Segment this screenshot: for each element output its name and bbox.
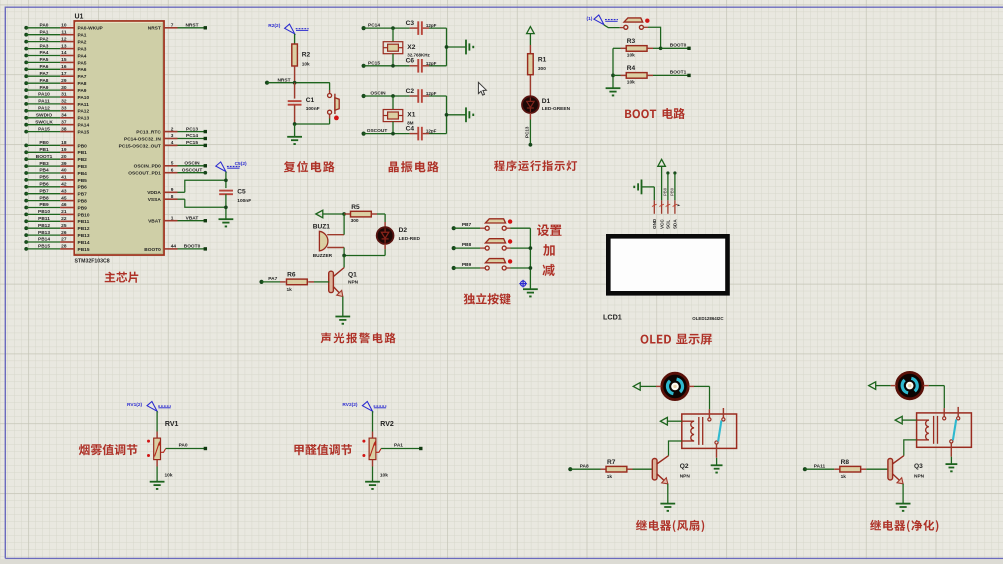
svg-text:BOOT0: BOOT0 — [144, 247, 161, 253]
svg-text:D2: D2 — [399, 227, 408, 234]
svg-text:PB7: PB7 — [39, 188, 49, 194]
U1 left pin 37 PA14 / net SWCLK wire — [24, 119, 89, 128]
svg-text:NPN: NPN — [680, 474, 691, 480]
svg-text:10k: 10k — [302, 62, 310, 68]
label 减 (red) — [543, 264, 555, 276]
wire D2 to junction — [344, 244, 385, 256]
U1 left pin 32 PA11 / net PA11 wire — [24, 99, 89, 108]
svg-text:PB4: PB4 — [39, 168, 49, 174]
net label PB9 (vertical, OLED) — [670, 187, 675, 196]
net label PC15 — [368, 60, 380, 66]
section label 复位电路 (red) — [284, 161, 335, 173]
C2 reference label — [406, 88, 415, 95]
svg-text:PA10: PA10 — [38, 92, 50, 98]
U1 left pin 26 PB13 / net PB13 wire — [24, 230, 90, 239]
svg-text:37: 37 — [61, 119, 67, 125]
power symbol (indicator) — [527, 27, 535, 45]
svg-text:300: 300 — [538, 66, 546, 72]
svg-text:PA8: PA8 — [580, 463, 589, 469]
svg-text:R7: R7 — [607, 459, 616, 466]
svg-text:PB10: PB10 — [38, 209, 50, 215]
svg-text:NPN: NPN — [914, 474, 925, 480]
C1 value label 100nF — [306, 106, 320, 112]
svg-text:VDDA: VDDA — [147, 190, 161, 196]
C4 value label 12pF — [426, 129, 437, 134]
net label PA1 — [394, 443, 403, 449]
svg-text:LED-RED: LED-RED — [399, 236, 421, 242]
power flag RV2(2) (blue) — [342, 402, 386, 412]
wire coil bottom to Q3 collector — [904, 440, 917, 456]
svg-text:PB9: PB9 — [39, 202, 49, 208]
R8 value label 1k — [841, 474, 847, 480]
ground (Q2) — [660, 504, 675, 512]
capacitor C6 — [418, 59, 422, 73]
svg-text:PB8: PB8 — [462, 242, 472, 248]
svg-text:SDA: SDA — [673, 219, 678, 229]
crystal X2 — [383, 42, 403, 54]
power symbol (OLED VCC) — [658, 159, 666, 200]
svg-text:22: 22 — [61, 216, 67, 222]
svg-text:4: 4 — [171, 140, 174, 146]
svg-text:PB0: PB0 — [39, 140, 49, 146]
ground (X1, right) — [466, 107, 474, 122]
motor/purifier — [891, 372, 929, 398]
LCD1 value label OLED12864I2C — [692, 316, 724, 321]
svg-text:PA5: PA5 — [78, 60, 87, 66]
U1 left pin 22 PB11 / net PB11 wire — [24, 216, 89, 225]
ground (OLED GND) — [633, 180, 654, 201]
R7 reference label — [607, 459, 616, 466]
svg-text:PA11: PA11 — [814, 463, 826, 469]
U1 left pin 10 PA0-WKUP / net PA0 wire — [24, 23, 103, 32]
U1 left pin 15 PA5 / net PA5 wire — [24, 57, 87, 66]
svg-text:PA7: PA7 — [40, 71, 49, 77]
svg-text:PA14: PA14 — [78, 123, 90, 129]
svg-text:10k: 10k — [627, 80, 635, 86]
svg-text:PB7: PB7 — [78, 192, 88, 198]
svg-text:16: 16 — [61, 64, 67, 70]
LCD1 pin 4 SDA — [673, 200, 681, 214]
potentiometer RV2 — [369, 438, 381, 460]
svg-text:PB9: PB9 — [78, 205, 88, 211]
wire net PA7 — [259, 280, 285, 284]
relay RL1 (fan) — [682, 408, 737, 458]
X1 value label 8M — [407, 120, 414, 125]
svg-text:28: 28 — [61, 244, 67, 250]
wire R2 top — [294, 34, 296, 44]
svg-text:19: 19 — [61, 147, 67, 153]
U1 left pin 11 PA1 / net PA1 wire — [24, 29, 87, 38]
svg-text:PB14: PB14 — [78, 240, 90, 246]
capacitor C5 — [219, 191, 233, 220]
svg-text:C3: C3 — [406, 20, 415, 27]
wire button left (BOOT) — [604, 25, 624, 28]
RV2 reference label — [380, 421, 394, 428]
motor/fan (net FAN) — [656, 373, 694, 399]
svg-text:R1: R1 — [538, 57, 547, 64]
U1 left pin 14 PA4 / net PA4 wire — [24, 50, 87, 59]
pushbutton (reset) wires — [295, 83, 330, 124]
X1 reference label — [407, 112, 415, 119]
junction OSCIN / X1 — [391, 94, 395, 98]
svg-text:10k: 10k — [380, 473, 388, 479]
svg-text:BUZ1: BUZ1 — [313, 224, 331, 231]
svg-text:46: 46 — [61, 202, 67, 208]
wire X1 top — [392, 96, 394, 110]
svg-text:PB3: PB3 — [78, 164, 88, 170]
ground (relay purifier) — [945, 464, 957, 472]
wire net PA0 (wiper) — [166, 447, 207, 450]
svg-text:41: 41 — [61, 175, 67, 181]
section label 继电器(净化) (red) — [870, 520, 938, 532]
svg-text:SWCLK: SWCLK — [35, 119, 53, 125]
svg-text:PC15-OSC32_OUT: PC15-OSC32_OUT — [119, 143, 161, 149]
svg-text:PB10: PB10 — [78, 212, 90, 218]
net label BOOT0 — [670, 43, 687, 49]
Q3 reference label — [914, 463, 923, 470]
svg-text:PB13: PB13 — [38, 230, 50, 236]
U1 right pin 7 NRST / net NRST wire — [148, 23, 207, 32]
U1 right pin 9 VDDA wire — [147, 180, 226, 196]
U1 value label STM32F103C8 — [75, 258, 110, 264]
U1 left pin 41 PB5 / net PB5 wire — [24, 175, 87, 184]
mouse cursor — [478, 82, 486, 95]
R1 reference label — [538, 57, 547, 64]
junction BOOT0 / R3 — [659, 46, 663, 50]
wire coil bottom to Q2 collector — [669, 441, 682, 456]
svg-text:1k: 1k — [607, 474, 613, 480]
svg-text:PA1: PA1 — [394, 443, 403, 449]
svg-text:C5: C5 — [237, 188, 246, 195]
svg-text:PA12: PA12 — [78, 109, 90, 115]
wire bus right (X1) — [445, 96, 466, 134]
power flag RV1(2) (blue) — [127, 402, 171, 412]
svg-text:5: 5 — [171, 161, 174, 167]
wire left bus (BOOT) — [612, 48, 614, 88]
R2 reference label — [302, 52, 311, 59]
capacitor C4 — [418, 127, 422, 141]
resistor R3 — [613, 46, 661, 52]
wire RV2 top — [372, 411, 374, 438]
svg-text:PC14: PC14 — [186, 133, 198, 139]
junction buzzer / D2 / Q1 — [342, 254, 346, 258]
C2 value label 12pF — [426, 91, 437, 96]
svg-text:PA13: PA13 — [78, 116, 90, 122]
capacitor C3 — [418, 21, 422, 35]
section label 晶振电路 (red) — [389, 161, 439, 172]
svg-text:45: 45 — [61, 195, 67, 201]
svg-text:PA1: PA1 — [40, 29, 49, 35]
svg-text:Q2: Q2 — [680, 463, 689, 470]
transistor Q2 — [652, 456, 668, 484]
section label 甲醛值调节 (red) — [294, 444, 352, 455]
net label PB8 (vertical, OLED) — [663, 187, 668, 196]
svg-text:PB9: PB9 — [462, 262, 472, 268]
svg-text:RV2: RV2 — [380, 421, 394, 428]
svg-text:R3: R3 — [627, 38, 636, 45]
svg-text:X1: X1 — [407, 112, 415, 119]
junction VSSA / C5 ground — [224, 205, 228, 209]
svg-text:C4: C4 — [406, 125, 415, 132]
LCD1 reference label — [603, 312, 622, 321]
svg-text:42: 42 — [61, 182, 67, 188]
Q1 reference label — [348, 272, 357, 279]
svg-text:33: 33 — [61, 106, 67, 112]
wire net PC15 — [362, 64, 447, 68]
pin name GND (vertical) — [652, 218, 657, 229]
section label OLED显示屏 (red) — [641, 334, 712, 345]
RV1 value label 10k — [165, 473, 173, 479]
svg-text:PB7: PB7 — [462, 222, 472, 228]
svg-text:38: 38 — [61, 126, 67, 132]
U1 right pin 1 VBAT / net VBAT wire — [148, 215, 207, 224]
svg-text:PA2: PA2 — [78, 40, 87, 46]
net label PA11 — [814, 463, 826, 469]
pushbutton (net PB7) with wire — [452, 219, 531, 230]
svg-text:29: 29 — [61, 78, 67, 84]
svg-text:14: 14 — [61, 50, 67, 56]
svg-text:PA11: PA11 — [78, 102, 90, 108]
capacitor C2 — [418, 89, 422, 103]
svg-text:R2(2): R2(2) — [268, 23, 280, 29]
U1 left pin 34 PA13 / net SWDIO wire — [24, 113, 89, 122]
pin name SCL (vertical) — [666, 220, 671, 229]
svg-text:PA4: PA4 — [40, 50, 49, 56]
svg-text:PB3: PB3 — [39, 161, 49, 167]
svg-text:PB2: PB2 — [78, 157, 88, 163]
ground (RV2) — [365, 482, 380, 490]
svg-text:VBAT: VBAT — [186, 215, 199, 221]
svg-text:PB13: PB13 — [78, 233, 90, 239]
svg-text:21: 21 — [61, 209, 67, 215]
junction PC14 / X2 — [391, 26, 395, 30]
C4 reference label — [406, 125, 415, 132]
svg-text:PB8: PB8 — [78, 199, 88, 205]
svg-text:PA12: PA12 — [38, 106, 50, 112]
U1 right pin 3 PC14-OSC32_IN / net PC14 wire — [124, 133, 207, 142]
resistor R1 — [528, 45, 534, 97]
wire net BOOT0 — [661, 47, 691, 50]
svg-text:SCL: SCL — [666, 220, 671, 229]
R3 reference label — [627, 38, 636, 45]
svg-text:44: 44 — [171, 244, 177, 250]
wire buzzer bottom — [343, 248, 345, 256]
svg-text:300: 300 — [351, 218, 359, 224]
svg-text:18: 18 — [61, 140, 67, 146]
svg-text:7: 7 — [171, 23, 174, 29]
U1 right pin 2 PC13_RTC / net PC13 wire — [136, 126, 207, 135]
net label BOOT1 — [670, 70, 687, 76]
U1 left pin 31 PA10 / net PA10 wire — [24, 92, 89, 101]
svg-text:30: 30 — [61, 85, 67, 91]
U1 left pin 45 PB8 / net PB8 wire — [24, 195, 87, 204]
buzzer BUZ1 — [319, 231, 344, 251]
crystal X1 — [383, 110, 403, 122]
svg-text:BOOT1: BOOT1 — [36, 154, 53, 160]
R6 reference label — [287, 272, 296, 279]
section label BOOT电路 (red) — [625, 108, 685, 119]
wire relay common to ground (purifier) — [950, 457, 952, 464]
svg-text:RV2(2): RV2(2) — [342, 402, 358, 408]
transistor Q3 — [888, 456, 904, 484]
wire motor to relay contact — [694, 386, 710, 409]
svg-text:100nF: 100nF — [237, 198, 251, 204]
svg-text:PB5: PB5 — [78, 178, 88, 184]
R4 value label 10k — [627, 80, 635, 86]
LCD1 pin 3 SCL — [666, 200, 671, 214]
svg-text:20: 20 — [61, 154, 67, 160]
resistor R2 — [292, 44, 298, 83]
svg-text:NRST: NRST — [148, 26, 161, 32]
svg-text:PB12: PB12 — [78, 226, 90, 232]
svg-text:40: 40 — [61, 168, 67, 174]
Q2 value label NPN — [680, 474, 691, 480]
wire net PA1 (wiper) — [381, 447, 422, 450]
U1 left pin 16 PA6 / net PA6 wire — [24, 64, 87, 73]
svg-text:R4: R4 — [627, 65, 636, 72]
svg-text:OSCIN: OSCIN — [184, 161, 200, 167]
transistor Q1 — [329, 268, 344, 297]
power flag (1) (blue) — [587, 15, 618, 25]
svg-text:10k: 10k — [627, 53, 635, 59]
svg-text:R8: R8 — [841, 459, 850, 466]
svg-text:PB12: PB12 — [38, 223, 50, 229]
junction NRST / R2 / C1 — [293, 81, 297, 85]
net label PA7 — [268, 276, 277, 282]
svg-text:12pF: 12pF — [426, 91, 437, 96]
svg-text:8: 8 — [171, 194, 174, 200]
C5 value label 100nF — [237, 198, 251, 204]
svg-text:1: 1 — [171, 215, 174, 221]
svg-text:PC15: PC15 — [186, 140, 198, 146]
svg-text:12pF: 12pF — [426, 129, 437, 134]
wire to ground (reset) — [294, 124, 296, 137]
U1 left pin 12 PA2 / net PA2 wire — [24, 36, 87, 45]
section label 烟雾值调节 (red) — [79, 444, 138, 455]
label 设置 (red) — [537, 224, 562, 236]
adjust dots (red) RV2 — [362, 440, 365, 457]
svg-text:OLED12864I2C: OLED12864I2C — [692, 316, 724, 321]
pushbutton (reset) symbol — [328, 94, 340, 121]
svg-text:PA6: PA6 — [40, 64, 49, 70]
ground (Q1) — [335, 317, 350, 325]
BUZ1 reference label — [313, 224, 331, 231]
junction X2 / PC15 — [391, 64, 395, 68]
wire net C5 — [225, 172, 227, 189]
D2 value label LED-RED — [399, 236, 421, 242]
svg-text:26: 26 — [61, 230, 67, 236]
pushbutton (BOOT) symbol — [624, 18, 650, 29]
wire RV1 top — [156, 411, 158, 438]
pushbutton (net PB8) with wire — [452, 239, 531, 251]
OLED display LCD1 screen — [608, 236, 727, 293]
U1 right pin 44 BOOT0 / net BOOT0 wire — [144, 244, 207, 253]
resistor R5 — [344, 211, 385, 217]
wire net OSCIN — [362, 94, 447, 98]
wire SDA — [673, 171, 676, 200]
wire net NRST — [265, 81, 330, 85]
svg-text:100nF: 100nF — [306, 106, 320, 112]
svg-text:(1): (1) — [587, 16, 593, 22]
svg-text:PB1: PB1 — [39, 147, 49, 153]
svg-text:PA9: PA9 — [78, 88, 87, 94]
svg-text:PB0: PB0 — [78, 143, 88, 149]
U1 left pin 42 PB6 / net PB6 wire — [24, 182, 87, 191]
R3 value label 10k — [627, 53, 635, 59]
svg-text:PB11: PB11 — [38, 216, 50, 222]
RV2 value label 10k — [380, 473, 388, 479]
D1 reference label — [542, 98, 551, 105]
power symbol (fan motor) — [633, 383, 656, 391]
C3 reference label — [406, 20, 415, 27]
label 加 (red) — [543, 244, 555, 256]
U1 left pin 19 PB1 / net PB1 wire — [24, 147, 87, 156]
U1 left pin 46 PB9 / net PB9 wire — [24, 202, 87, 211]
svg-text:PB15: PB15 — [78, 247, 90, 253]
wire X2 top — [392, 28, 394, 42]
svg-text:NPN: NPN — [348, 280, 359, 286]
svg-text:D1: D1 — [542, 98, 551, 105]
ground (X2, right) — [466, 40, 474, 55]
R7 value label 1k — [607, 474, 613, 480]
wire SCL — [666, 171, 669, 200]
svg-text:R2: R2 — [302, 52, 311, 59]
svg-text:PA9: PA9 — [40, 85, 49, 91]
junction PB8 / bus — [529, 246, 533, 250]
U1 left pin 20 PB2 / net BOOT1 wire — [24, 154, 87, 163]
svg-text:PA10: PA10 — [78, 95, 90, 101]
U1 reference label — [75, 14, 84, 21]
svg-text:R6: R6 — [287, 272, 296, 279]
svg-text:39: 39 — [61, 161, 67, 167]
power symbol (alarm) — [316, 210, 344, 218]
svg-text:C1: C1 — [306, 97, 315, 104]
R5 value label 300 — [351, 218, 359, 224]
wire motor to relay contact (purifier) — [929, 386, 945, 409]
power flag R2(2) (blue) — [268, 23, 308, 34]
svg-text:PB9: PB9 — [670, 187, 675, 196]
svg-text:43: 43 — [61, 188, 67, 194]
svg-text:GND: GND — [652, 218, 657, 229]
Q2 reference label — [680, 463, 689, 470]
svg-text:PB6: PB6 — [39, 182, 49, 188]
svg-text:PA11: PA11 — [38, 99, 50, 105]
wire relay common to ground — [716, 458, 718, 465]
svg-text:Q1: Q1 — [348, 272, 357, 279]
resistor R7 — [606, 466, 652, 472]
U1 right pin 6 OSCOUT_PD1 / net OSCOUT wire — [128, 167, 207, 176]
R4 reference label — [627, 65, 636, 72]
BUZ1 value label BUZZER — [313, 253, 333, 259]
U1 left pin 43 PB7 / net PB7 wire — [24, 188, 87, 197]
svg-text:2: 2 — [171, 126, 174, 132]
wire buzzer top — [343, 214, 345, 235]
pin name SDA (vertical) — [673, 219, 678, 229]
U1 left pin 28 PB15 / net PB15 wire — [24, 244, 90, 253]
svg-text:PB8: PB8 — [663, 187, 668, 196]
svg-text:PA7: PA7 — [78, 74, 87, 80]
svg-text:9: 9 — [171, 187, 174, 193]
svg-text:PA6: PA6 — [78, 67, 87, 73]
section label 程序运行指示灯 (red) — [494, 160, 577, 171]
svg-text:BOOT0: BOOT0 — [184, 244, 201, 250]
svg-text:BOOT0: BOOT0 — [670, 43, 687, 49]
svg-text:PA0: PA0 — [179, 443, 188, 449]
svg-text:PA15: PA15 — [78, 130, 90, 136]
LCD1 pin 2 VCC — [659, 200, 664, 214]
svg-text:LED-GREEN: LED-GREEN — [542, 106, 571, 112]
Q3 value label NPN — [914, 474, 925, 480]
